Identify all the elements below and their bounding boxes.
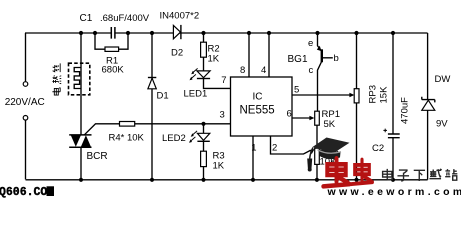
char 电: [383, 169, 393, 180]
potentiometer RP1 5K body: [315, 111, 320, 125]
wire bottom rail: [26, 179, 428, 181]
svg-text:DW: DW: [435, 74, 451, 85]
capacitor C1 plates: [111, 27, 115, 39]
svg-text:RP3: RP3: [368, 85, 379, 103]
svg-text:2: 2: [272, 143, 277, 154]
svg-text:7: 7: [221, 75, 226, 86]
svg-text:BG1: BG1: [288, 54, 308, 65]
junction dots top rail: [79, 31, 395, 35]
wire pin 1: [252, 136, 254, 180]
diode D2: [173, 25, 181, 39]
AC terminal lower: [23, 116, 28, 121]
wire lower left drop: [25, 120, 27, 179]
LED1: [190, 68, 211, 80]
wire pin 5 to RP3 wiper: [292, 94, 351, 96]
svg-text:IN4007*2: IN4007*2: [160, 11, 200, 22]
char 丝: [53, 63, 61, 72]
wire heater branch: [80, 33, 82, 180]
wire LED2/R3 branch: [203, 124, 205, 180]
svg-text:5: 5: [294, 85, 299, 96]
op-amp U1 IC NE555 body: [231, 77, 293, 136]
svg-text:NE555: NE555: [240, 105, 275, 117]
watermark 电子下载站 dark text: [383, 169, 458, 181]
svg-text:C1: C1: [80, 13, 93, 24]
resistor R4 10K: [120, 122, 135, 127]
wire left drop to terminal: [25, 33, 27, 81]
resistor R3 1K: [201, 151, 207, 166]
svg-text:Q606.CO: Q606.CO: [0, 186, 47, 198]
potentiometer RP3 15K body: [354, 89, 359, 103]
svg-text:LED1: LED1: [184, 89, 208, 100]
svg-text:e: e: [308, 38, 313, 49]
char 下: [414, 170, 425, 181]
svg-text:8: 8: [240, 65, 245, 76]
svg-text:C2: C2: [372, 143, 384, 154]
wire pin 2 to RP2 wiper: [271, 136, 311, 154]
svg-text:www.eeworm.com: www.eeworm.com: [327, 186, 461, 198]
C2 plus sign: [383, 129, 387, 133]
LED2: [189, 131, 210, 143]
wire RP1-RP2 chain: [316, 125, 318, 180]
svg-text:IC: IC: [253, 92, 263, 103]
wire top rail: [25, 32, 428, 34]
junction dots bottom rail: [79, 178, 395, 182]
resistor R2 1K: [201, 42, 207, 57]
wire D1 branch: [151, 33, 153, 180]
heating element label 电热丝 (hand-drawn, rotated): [52, 63, 61, 95]
char 站: [445, 169, 457, 180]
diode D1: [148, 78, 156, 89]
svg-text:1K: 1K: [213, 161, 225, 172]
svg-text:220V/AC: 220V/AC: [5, 97, 45, 108]
heater element meander: [74, 68, 81, 89]
arrowhead pin 5: [349, 93, 354, 98]
capacitor C2 plates: [388, 134, 400, 138]
wire C2 branch: [392, 33, 394, 180]
watermark graduation cap: [307, 138, 349, 172]
svg-text:5K: 5K: [324, 119, 336, 130]
svg-text:470uF: 470uF: [400, 97, 411, 124]
wire pin 8: [248, 33, 250, 77]
svg-text:R4* 10K: R4* 10K: [109, 133, 145, 144]
svg-text:LED2: LED2: [162, 133, 186, 144]
char 載: [429, 169, 441, 179]
node LED2 top junction: [201, 122, 205, 126]
wire right rail (DW branch): [427, 33, 429, 180]
svg-text:.68uF/400V: .68uF/400V: [100, 13, 150, 24]
wire pin 3 run to gate: [84, 124, 231, 135]
svg-text:c: c: [309, 65, 314, 76]
wire RP3 branch: [356, 33, 358, 180]
char 热: [52, 76, 61, 84]
svg-text:4: 4: [261, 65, 266, 76]
svg-text:BCR: BCR: [87, 151, 108, 162]
potentiometer RP2 10K body: [315, 148, 320, 164]
svg-text:680K: 680K: [102, 65, 125, 76]
wire R1 parallel branch: [95, 33, 128, 49]
char 子: [397, 170, 409, 181]
svg-text:D2: D2: [171, 48, 183, 59]
char 电: [52, 88, 60, 95]
svg-text:D1: D1: [157, 91, 169, 102]
svg-text:3: 3: [220, 110, 225, 121]
svg-text:b: b: [334, 53, 339, 64]
svg-text:1K: 1K: [208, 54, 220, 65]
transistor BG1 wires: [318, 33, 333, 111]
wire pin 6 to RP1 wiper: [292, 117, 310, 119]
wire R2/LED1 branch to pin 7: [204, 33, 231, 88]
svg-text:15K: 15K: [379, 86, 390, 104]
wire pin 4: [268, 33, 270, 77]
arrowhead pin 6: [309, 116, 314, 121]
svg-text:6: 6: [287, 109, 292, 120]
AC terminal upper: [23, 82, 28, 87]
svg-text:9V: 9V: [436, 119, 448, 130]
resistor R1 680K: [105, 47, 119, 51]
svg-text:1: 1: [251, 143, 256, 154]
watermark red 虫虫: [323, 158, 372, 186]
arrowhead pin 2 wiper RP2: [309, 149, 314, 154]
triac BCR: [69, 135, 91, 147]
transistor BG1 base bar and emitter arrow: [321, 49, 323, 62]
heater dashed enclosure: [69, 63, 90, 95]
zener diode DW: [422, 97, 435, 111]
